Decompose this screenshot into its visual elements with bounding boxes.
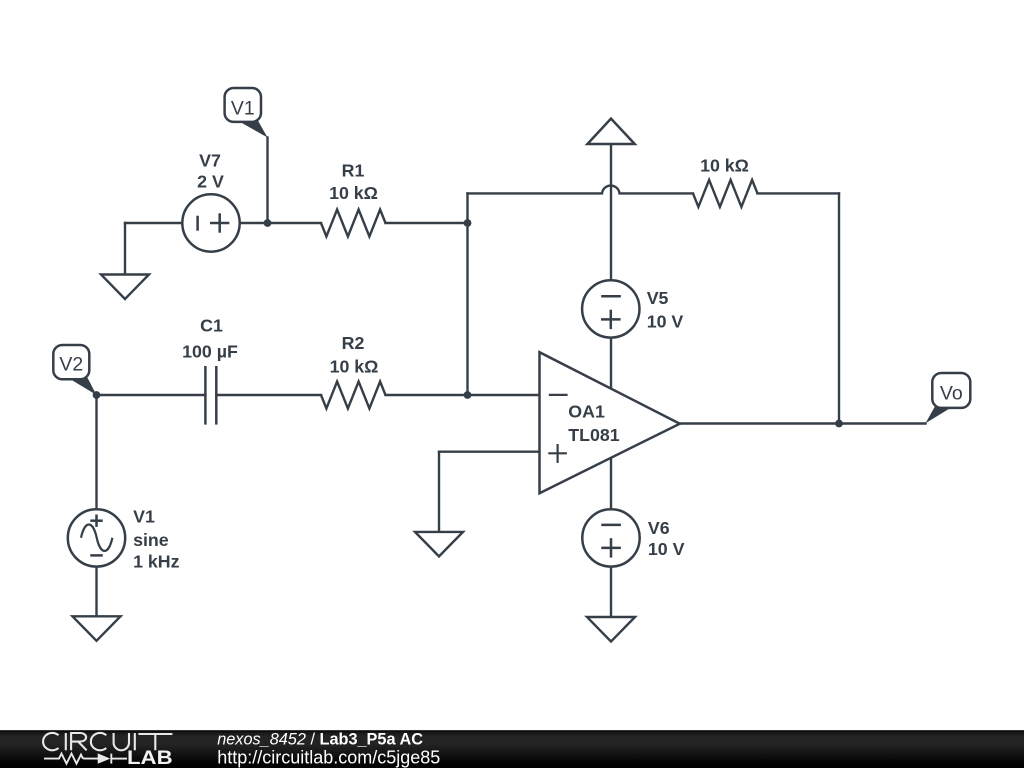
- ground under V6: [587, 617, 635, 642]
- wire V7 left to ground: [124, 223, 126, 275]
- sine voltage source V1: [68, 509, 125, 566]
- svg-text:V6: V6: [648, 518, 670, 538]
- ground under sine source: [73, 616, 121, 641]
- svg-text:10 kΩ: 10 kΩ: [700, 156, 749, 176]
- junction node output: [835, 420, 843, 428]
- wire noninverting to ground: [438, 452, 440, 532]
- wire R1 to node: [386, 222, 468, 224]
- op-amp inverting input mark: [549, 394, 568, 396]
- net flag V1: [225, 88, 268, 138]
- svg-text:TL081: TL081: [568, 425, 620, 445]
- junction node at V7 output: [264, 219, 272, 227]
- wire feedback resistor to corner: [758, 192, 840, 194]
- resistor R1: [321, 210, 386, 237]
- wire op-amp V- pin to V6: [610, 459, 612, 509]
- op-amp OA1: [540, 352, 680, 493]
- svg-text:1 kHz: 1 kHz: [133, 551, 180, 571]
- junction node V2: [93, 391, 101, 399]
- resistor R2: [321, 382, 386, 409]
- svg-text:C1: C1: [200, 316, 223, 336]
- net flag Vo: [926, 373, 971, 423]
- svg-text:R1: R1: [342, 161, 365, 181]
- wire V6 to ground: [610, 567, 612, 617]
- svg-text:LAB: LAB: [127, 748, 173, 768]
- capacitor C1: [205, 366, 216, 425]
- voltage source V6: [582, 509, 639, 566]
- footer bar: [0, 730, 1024, 768]
- resistor R3 feedback: [693, 180, 758, 207]
- svg-text:V2: V2: [59, 354, 83, 376]
- svg-text:sine: sine: [133, 530, 169, 550]
- svg-text:10 kΩ: 10 kΩ: [330, 357, 379, 377]
- footer logo resistor-diode: [44, 754, 127, 764]
- voltage source V7: [182, 194, 239, 251]
- wire V7 left lead: [125, 222, 182, 224]
- svg-text:nexos_8452 / Lab3_P5a AC: nexos_8452 / Lab3_P5a AC: [217, 730, 423, 748]
- wire feedback right vertical: [838, 193, 840, 423]
- wire power arrow down to V5: [610, 144, 612, 280]
- wire node to op-amp inverting input: [468, 394, 540, 396]
- wire R2 to node: [386, 394, 468, 396]
- junction node inverting input: [464, 391, 472, 399]
- svg-text:10 V: 10 V: [648, 539, 685, 559]
- net flag V2: [53, 345, 96, 395]
- svg-text:V7: V7: [199, 151, 221, 171]
- svg-text:V1: V1: [231, 98, 255, 120]
- wire top feedback left with hop: [468, 186, 694, 194]
- svg-text:OA1: OA1: [568, 402, 605, 422]
- ground under noninverting input: [415, 532, 463, 557]
- voltage source V5: [582, 280, 639, 337]
- wire op-amp noninverting input: [439, 451, 540, 453]
- wire inverting vertical bus: [466, 193, 468, 395]
- svg-text:10 V: 10 V: [647, 311, 684, 331]
- svg-text:Vo: Vo: [940, 383, 963, 405]
- svg-text:V5: V5: [647, 288, 669, 308]
- svg-text:2 V: 2 V: [197, 172, 224, 192]
- wire V7 right to R1: [240, 222, 321, 224]
- power arrow: [587, 119, 634, 144]
- svg-text:100 µF: 100 µF: [182, 342, 238, 362]
- op-amp noninverting input mark: [548, 444, 567, 463]
- ground under V7: [101, 275, 149, 300]
- wire sine source to ground: [95, 567, 97, 617]
- wire V5 to op-amp V+ pin: [610, 338, 612, 387]
- svg-text:R2: R2: [342, 333, 365, 353]
- svg-text:http://circuitlab.com/c5jge85: http://circuitlab.com/c5jge85: [217, 747, 440, 767]
- wire op-amp output to Vo: [680, 422, 926, 424]
- footer logo CIRCUIT: [43, 733, 172, 750]
- wire V2 node down to source: [95, 395, 97, 509]
- wire V2 node to C1: [97, 394, 206, 396]
- wire C1 to R2: [216, 394, 321, 396]
- wire net V1 vertical from flag: [266, 138, 268, 224]
- svg-text:V1: V1: [133, 507, 155, 527]
- junction node R1 right: [464, 219, 472, 227]
- svg-text:10 kΩ: 10 kΩ: [329, 183, 378, 203]
